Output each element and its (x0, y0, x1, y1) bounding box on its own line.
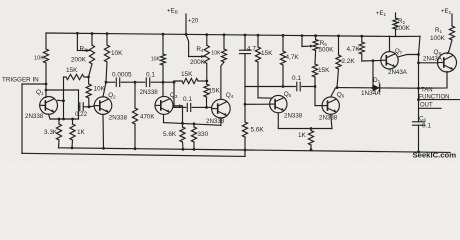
wire cap bus to 10K (163, 81, 175, 84)
resistor 3.3K (44, 119, 62, 148)
wire Q2 base (89, 105, 94, 108)
resistor 10K R-e (104, 34, 123, 84)
resistor 10K R-f (151, 34, 166, 82)
wire Q3 Q4 emitter bus (164, 122, 221, 125)
wire ground rail (59, 148, 451, 153)
capacitor C6 0.1 (413, 100, 432, 154)
wire R3 wiper (77, 33, 89, 52)
resistor 10K R-j (211, 35, 226, 62)
wire frame jog at x245 (244, 150, 246, 156)
resistor 470K (132, 82, 155, 150)
node supply +EB (167, 8, 186, 35)
wire 0.22 riser (78, 90, 80, 119)
wire Q7 emitter out (398, 55, 419, 58)
wire Q5 base line (244, 87, 270, 106)
wire Q3 right emitter lead (173, 104, 183, 123)
wire right bus (417, 36, 420, 88)
resistor 10K R-a (34, 33, 49, 84)
resistor 5.6K R-k (242, 104, 264, 151)
resistor 2.2K (336, 36, 356, 89)
capacitor 0.1 C-b (174, 96, 207, 112)
wire out drop (418, 88, 420, 99)
wire Q2 emitter (102, 114, 105, 149)
wire Q5 coupling bus (245, 85, 295, 88)
wire Q4 collector (221, 62, 224, 99)
resistor R2 100K (393, 13, 411, 36)
capacitor 0.0005 (106, 72, 136, 87)
wire Q8 collector (448, 51, 450, 54)
wire Q5 emitter (277, 113, 279, 129)
capacitor 0.1 C-c (292, 75, 316, 91)
wire +20 V top rail (46, 33, 420, 37)
resistor 1K R-n (298, 129, 314, 152)
resistor 4.7K R-p (347, 36, 365, 61)
node supply +E1 (376, 11, 387, 17)
node +20 label (188, 19, 199, 25)
transistor Q1 (25, 89, 57, 120)
wire Q1 collector line (62, 77, 65, 119)
wire Q6 emitter (331, 114, 332, 128)
wire frame bottom border (22, 153, 245, 156)
wire Q1 emitter (49, 114, 50, 119)
wire R5 wiper (302, 36, 313, 48)
resistor 5.6K R-g (163, 123, 185, 150)
wire Q8 base (419, 62, 439, 64)
wire Q7 collector (389, 36, 391, 52)
resistor 15K R-o (312, 51, 330, 87)
transistor Q5 (270, 91, 303, 119)
wire D1 bus (337, 87, 420, 90)
resistor 330 (191, 124, 208, 151)
wire R4 wiper (186, 34, 204, 58)
wire Q1 collector lead (57, 99, 63, 102)
transistor Q2 (94, 92, 127, 121)
wire Q5 Q6 emitter bus (278, 127, 332, 130)
transistor Q8 (423, 49, 457, 72)
node +20 rail junction dots (76, 32, 363, 38)
transistor Q6 (319, 91, 345, 121)
capacitor 4.7 (240, 35, 257, 87)
resistor 15K R-c (64, 67, 89, 80)
resistor 15K R-i (204, 81, 221, 109)
wire Q6 collector (331, 88, 336, 97)
wire Q2 collector (103, 82, 106, 97)
potentiometer R4 200K (190, 35, 209, 81)
capacitor 0.22 (75, 103, 90, 118)
potentiometer R5 500K (313, 36, 334, 54)
resistor 4.7K R-m (280, 35, 299, 86)
transistor Q3 (140, 89, 178, 114)
wire Q1 base drop (45, 84, 48, 98)
wire Q7 base (362, 59, 381, 62)
resistor 15K R-h (174, 71, 208, 84)
resistor 10K R-d (86, 77, 106, 107)
wire Q1 cross wire (46, 89, 79, 91)
transistor Q7 (381, 48, 408, 76)
wire Q4 emitter (220, 118, 222, 125)
wire Q3 emitter (163, 114, 165, 122)
transistor Q4 (206, 92, 234, 125)
resistor 1K R-b (70, 119, 86, 149)
wire D1 riser (372, 61, 375, 90)
node TAN FUNCTION OUT (417, 88, 460, 109)
potentiometer R3 200K (71, 34, 95, 79)
wire Q3 top drops (163, 82, 174, 107)
wire Q8 emitter (419, 72, 448, 89)
capacitor 0.1 C-a (135, 72, 164, 87)
wire frame left border (21, 84, 24, 153)
node supply +E2 (441, 9, 452, 15)
wire Q6 base (315, 87, 322, 106)
node TRIGGER IN (2, 77, 47, 86)
resistor R1 100K (430, 14, 455, 51)
resistor 15K R-l (255, 35, 273, 98)
wire Q1 emitter bus (50, 118, 79, 121)
watermark SeekIC.com (413, 151, 457, 160)
diode D1 1N34A (361, 77, 381, 97)
